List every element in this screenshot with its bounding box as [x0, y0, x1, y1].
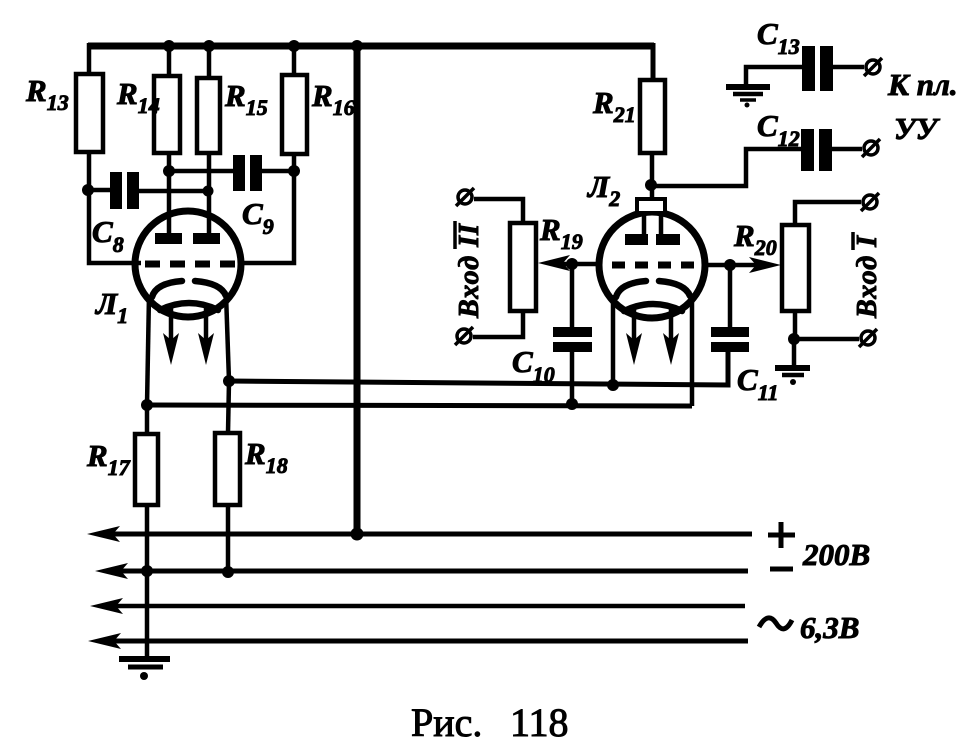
wire R21 top lead [651, 43, 656, 80]
svg-text:R16: R16 [311, 78, 355, 120]
junction R17 at rail 2 [141, 565, 153, 577]
tube U2 top cap [637, 199, 665, 234]
svg-text:R17: R17 [86, 438, 131, 480]
svg-text:C12: C12 [757, 108, 800, 151]
junction on bus at R14 [163, 40, 175, 52]
plus symbol [768, 522, 795, 548]
resistor R16 [282, 75, 307, 154]
resistor R14 [154, 76, 180, 153]
tube U2 anode bar right [656, 234, 680, 245]
resistor R21 [640, 80, 665, 153]
resistor R13 [76, 74, 103, 152]
terminal input II bottom [455, 327, 473, 345]
tube U2 anode bar left [625, 234, 648, 245]
wire R18 top lead [228, 381, 229, 433]
svg-text:Рис.: Рис. [411, 700, 482, 745]
svg-text:R20: R20 [733, 218, 777, 260]
svg-text:200В: 200В [802, 537, 870, 572]
svg-text:Вход II: Вход II [454, 223, 485, 319]
svg-text:R15: R15 [224, 78, 268, 120]
terminal C12 [862, 139, 880, 157]
wire main vertical bus [354, 44, 361, 534]
wire R19 top lead [474, 199, 523, 223]
junction on bus at R16 [288, 40, 300, 52]
terminal C13 [864, 58, 882, 76]
resistor R17 [135, 434, 158, 505]
svg-text:C11: C11 [737, 362, 778, 405]
junction C8 left [82, 184, 94, 196]
wire R18 bottom lead [226, 505, 231, 572]
junction C11 top [724, 259, 736, 271]
terminal input I bottom [859, 329, 877, 347]
junction C8 right at R15 lead [203, 186, 214, 197]
ground R20 [775, 368, 810, 385]
junction line A at R18 [223, 375, 235, 387]
heater arrow U2 right [663, 307, 679, 365]
ground main [119, 659, 170, 680]
svg-text:R19: R19 [539, 212, 583, 254]
wire R20 bottom lead [795, 311, 859, 339]
tube U1 anode bar left [155, 233, 182, 244]
terminal input I top [861, 193, 879, 211]
wire R13 top lead [87, 43, 92, 74]
junction anode node [645, 179, 657, 191]
tube U2 cathode left arc [616, 281, 646, 297]
junction C9 right at R16 lead [288, 165, 300, 177]
junction R20 bottom [788, 333, 800, 345]
junction on bus at vertical bus [351, 40, 363, 52]
junction C10 bottom at line B [566, 398, 578, 410]
svg-text:C10: C10 [512, 344, 555, 387]
tube U2 heater arc [624, 304, 682, 311]
svg-text:R21: R21 [592, 85, 636, 127]
rail 2 minus 200V [95, 563, 748, 579]
tube U2 envelope [599, 212, 705, 318]
resistor R18 [215, 433, 240, 505]
junction C10 top [566, 258, 578, 270]
tube U1 cathode left arc [152, 281, 182, 297]
junction U2 left cathode at line A [607, 379, 619, 391]
svg-text:C9: C9 [242, 196, 274, 239]
rail 1 plus 200V [87, 526, 752, 542]
minus symbol [770, 567, 793, 572]
tilde symbol [759, 618, 792, 629]
junction R18 at rail 2 [222, 566, 234, 578]
wire cathode line B [147, 405, 692, 406]
wire U1 left cathode lead [147, 295, 149, 405]
tube U2 grid dashed line [612, 262, 700, 269]
tube U1 anode bar right [193, 233, 220, 244]
capacitor C9 [169, 155, 294, 191]
heater arrow U2 left [626, 307, 642, 365]
tube U1 heater arc [160, 303, 218, 310]
junction rail 1 at vertical bus [351, 528, 364, 541]
capacitor C10 [553, 264, 592, 405]
wire R17 bottom to ground [145, 505, 150, 657]
resistor R19 [510, 223, 536, 311]
wire R15 top lead [207, 43, 212, 78]
wire R14 top lead [167, 43, 172, 76]
wire R17 top lead [145, 405, 150, 434]
wire anode to C12 [651, 149, 801, 186]
svg-text:R18: R18 [244, 436, 288, 478]
ground C13 [726, 87, 770, 108]
svg-text:118: 118 [510, 700, 569, 745]
label Vhod II rotated [454, 221, 485, 319]
svg-text:C13: C13 [757, 16, 800, 59]
svg-text:УУ: УУ [894, 111, 941, 146]
junction C9 left at R14 lead [163, 165, 175, 177]
wire U1 right cathode lead [226, 294, 229, 381]
capacitor C8 [88, 172, 208, 209]
caption Ris. 118 [411, 700, 569, 745]
wire R16 bottom to grid right [240, 154, 294, 263]
terminal input II top [456, 188, 474, 206]
capacitor C13 [802, 46, 864, 91]
wire U2 left cathode lead [611, 295, 616, 386]
wire R19 bottom lead [473, 311, 523, 337]
wire R21 bottom anode lead [650, 153, 655, 200]
svg-text:Вход I: Вход I [852, 235, 883, 319]
svg-text:Л1: Л1 [94, 286, 128, 328]
wire R13 bottom to grid left [89, 152, 141, 263]
tube U1 cathode right arc [195, 281, 226, 296]
wire R16 top lead [292, 43, 297, 75]
wire R14 bottom to anode [167, 153, 172, 236]
wire R20 ground lead [792, 339, 797, 366]
wire top supply bus [88, 43, 654, 50]
svg-text:R13: R13 [25, 73, 69, 115]
resistor R15 [197, 78, 220, 153]
svg-text:К пл.: К пл. [887, 67, 958, 102]
svg-text:6,3В: 6,3В [800, 610, 859, 645]
wire U2 grid right with arrow to R20 [704, 257, 781, 273]
junction on bus at R15 [203, 40, 215, 52]
junction line B at R17 [141, 399, 153, 411]
wire C13 ground lead [746, 67, 802, 84]
tube U1 grid dashed line [145, 261, 236, 268]
rail 3 heater 6.3V [90, 598, 745, 614]
capacitor C11 [711, 265, 749, 352]
resistor R20 [782, 225, 809, 311]
heater arrow U1 left [163, 306, 179, 365]
rail 4 heater 6.3V [88, 633, 748, 649]
wire U2 grid left with arrow to R19 [538, 255, 600, 271]
tube U2 cathode right arc [659, 281, 690, 296]
capacitor C12 [801, 129, 862, 171]
wire R15 bottom to anode [207, 153, 212, 236]
label Vhod I rotated [852, 232, 883, 319]
wire U2 right cathode lead [690, 294, 695, 406]
svg-text:Л2: Л2 [586, 169, 620, 211]
heater arrow U1 right [198, 306, 214, 365]
tube U1 envelope [135, 211, 241, 317]
wire R20 top lead [795, 202, 861, 225]
wire cathode line A [229, 352, 728, 385]
svg-text:C8: C8 [92, 214, 124, 257]
